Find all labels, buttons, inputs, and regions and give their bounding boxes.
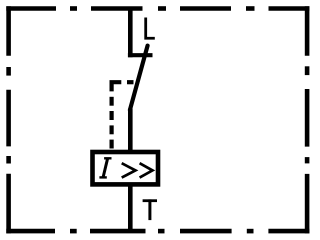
label I (instantaneous overcurrent): [99, 158, 111, 177]
mechanical linkage dashed: [112, 82, 134, 148]
wire L terminal to contact: [128, 7, 133, 57]
overcurrent trip box U1: [93, 152, 159, 184]
enclosure boundary top (dash-dot): [6, 6, 309, 11]
label L: [146, 18, 155, 39]
enclosure boundary right (dash-dot): [305, 6, 310, 233]
wire contact to trip box: [128, 109, 133, 154]
wire trip box to T terminal: [128, 184, 133, 234]
breaker moving contact blade: [130, 46, 148, 110]
enclosure boundary left (dash-dot): [6, 6, 11, 233]
chevron 1: [122, 163, 136, 177]
enclosure boundary bottom (dash-dot): [6, 229, 309, 234]
fixed contact tick: [128, 53, 153, 57]
label T: [143, 199, 157, 220]
chevron 2: [140, 163, 153, 177]
